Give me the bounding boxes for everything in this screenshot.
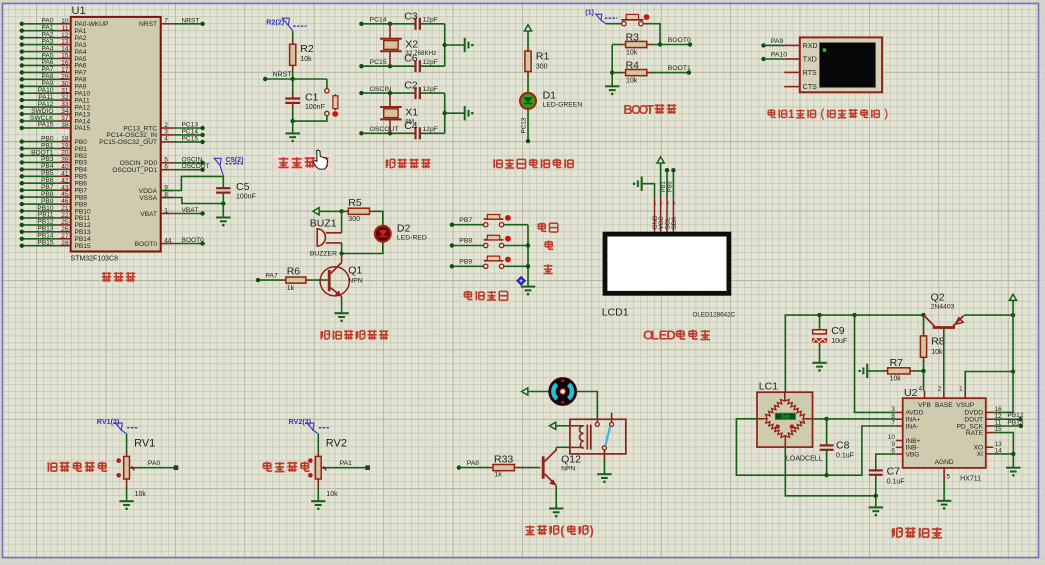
power arrow weighing: [1009, 294, 1016, 316]
svg-text:PB6: PB6: [41, 177, 54, 184]
svg-text:PB0: PB0: [668, 181, 674, 192]
svg-text:1: 1: [788, 108, 795, 121]
svg-text:22: 22: [61, 212, 69, 219]
crystal X2: [380, 24, 436, 66]
svg-text:D: D: [666, 328, 676, 343]
svg-text:PA15: PA15: [38, 122, 54, 129]
oled LCD1 body: [602, 234, 736, 318]
resistor R1: [525, 47, 550, 76]
svg-text:0.1uF: 0.1uF: [836, 452, 854, 459]
svg-text:13: 13: [61, 39, 69, 46]
svg-text:PB13: PB13: [1007, 419, 1023, 426]
node C8 bottom: [824, 473, 828, 477]
chip U1 pin PB6 (42): [20, 177, 88, 188]
chip U1 pin PA6 (16): [20, 59, 87, 70]
svg-text:3: 3: [667, 201, 670, 206]
svg-text:R4: R4: [626, 60, 640, 72]
svg-text:PB12: PB12: [1007, 412, 1023, 419]
wire D1 to PC13: [520, 109, 530, 143]
svg-text:C9: C9: [831, 325, 845, 337]
wire RATE to ground: [993, 433, 1013, 468]
svg-text:OLED128642C: OLED128642C: [693, 312, 736, 319]
wire R5 to D2: [373, 211, 383, 226]
svg-text:10k: 10k: [300, 56, 312, 63]
svg-text:4: 4: [673, 201, 676, 206]
op chip U1 body: [71, 5, 161, 262]
chip U2 pin PD_SCK (11): [957, 420, 1002, 431]
svg-text:X2: X2: [405, 39, 418, 51]
chip U2 pin AVDD (3): [891, 406, 923, 417]
wire OSCIN: [359, 86, 415, 95]
wire relay to ground: [603, 460, 605, 475]
label 复位电路 with cursor: [274, 150, 333, 171]
chip U2 HX711 body: [903, 387, 986, 483]
svg-text:300: 300: [348, 216, 360, 223]
node Q1 collector: [339, 251, 343, 255]
chip U1 pin VDDA (9): [139, 184, 174, 195]
wire right bus X1: [444, 93, 446, 133]
svg-text:PB1: PB1: [41, 142, 54, 149]
wire VSSA to C5: [161, 198, 224, 204]
ground C9: [812, 363, 826, 367]
LED D1 green: [520, 90, 582, 109]
svg-text:D2: D2: [397, 223, 411, 235]
chip U2 pin INB- (9): [891, 441, 918, 452]
svg-text:38: 38: [61, 122, 69, 129]
chip U1 pin VBAT (1): [140, 207, 205, 218]
net flag RV2(2): [289, 417, 331, 434]
svg-text:PB7: PB7: [459, 217, 472, 224]
svg-text:PC13: PC13: [520, 117, 527, 133]
oled pin GND: [652, 197, 659, 232]
svg-text:PB15: PB15: [75, 243, 91, 250]
svg-text:12pF: 12pF: [422, 17, 438, 24]
svg-text:U1: U1: [72, 5, 86, 17]
svg-text:44: 44: [164, 237, 172, 244]
svg-text:7: 7: [164, 18, 168, 25]
svg-text:10k: 10k: [326, 491, 338, 498]
chip U2 pin BASE (2): [935, 386, 953, 409]
resistor R5: [342, 197, 374, 223]
chip U1 pin PB15 (28): [20, 240, 91, 251]
svg-text:VFB: VFB: [918, 402, 931, 409]
svg-text:PB1: PB1: [75, 146, 88, 153]
svg-text:PB8: PB8: [459, 238, 472, 245]
chip U1 pin PA0-WKUP (10): [20, 18, 109, 29]
svg-text:SWDIO: SWDIO: [31, 108, 53, 115]
svg-text:PB11: PB11: [38, 212, 54, 219]
wire Q12 emitter: [555, 486, 557, 509]
resistor R3: [612, 32, 692, 57]
oled pin SCL: [664, 197, 671, 232]
svg-text:LED-RED: LED-RED: [397, 235, 427, 242]
svg-text:NRST: NRST: [139, 21, 157, 28]
svg-text:19: 19: [61, 143, 69, 150]
svg-text:OSCIN: OSCIN: [370, 86, 392, 93]
chip U1 pin PA3 (13): [20, 38, 87, 49]
wire LC1 right INA+: [813, 418, 896, 420]
wire buzzer bottom: [341, 243, 343, 254]
chip U1 pin PA1 (11): [20, 25, 87, 36]
push button BOOT: [606, 14, 660, 44]
wire PD_SCK PB13: [993, 419, 1024, 428]
ground keys: [521, 287, 535, 291]
svg-text:PA8: PA8: [75, 77, 87, 84]
label 减: [544, 264, 553, 273]
svg-text:45: 45: [61, 191, 69, 198]
chip U1 pin PB9 (46): [20, 198, 88, 209]
resistor R33: [457, 453, 541, 478]
svg-text:0.1uF: 0.1uF: [887, 479, 905, 486]
chip U1 pin PB8 (45): [20, 191, 88, 202]
svg-text:2N4403: 2N4403: [931, 304, 955, 311]
wire LC1 bottom: [785, 447, 876, 496]
net flag (1): [585, 8, 617, 24]
chip U1 pin PA12 (33): [20, 101, 91, 112]
resistor R2: [290, 31, 314, 79]
node rail Q2 collector: [921, 313, 925, 317]
svg-text:PA6: PA6: [42, 59, 54, 66]
chip U2 pin INA+ (8): [891, 413, 920, 424]
svg-text:300: 300: [536, 64, 548, 71]
svg-text:10k: 10k: [931, 349, 943, 356]
svg-text:R6: R6: [287, 266, 301, 278]
svg-text:PA8: PA8: [42, 73, 54, 80]
power arrow relay coil: [550, 422, 570, 429]
svg-text:CTS: CTS: [803, 84, 817, 91]
wire D2 to node: [342, 242, 383, 254]
svg-text:32.768KHz: 32.768KHz: [405, 50, 436, 57]
chip U2 pin INB+ (10): [888, 434, 921, 445]
chip U1 pin PB14 (27): [20, 233, 91, 244]
wire LC1 left INA-: [736, 419, 895, 475]
svg-text:NRST: NRST: [273, 72, 293, 79]
svg-text:LED-GREEN: LED-GREEN: [543, 102, 583, 109]
wire PA10 to TXD: [761, 52, 800, 62]
wire XI: [993, 453, 1013, 455]
svg-text:PC14-OSC32_IN: PC14-OSC32_IN: [106, 132, 157, 139]
ground side X2: [465, 38, 469, 52]
svg-text:R2: R2: [300, 43, 314, 55]
chip U1 pin NRST (7): [139, 17, 205, 28]
chip U1 pin VSSA (8): [139, 191, 173, 202]
svg-text:BOOT0: BOOT0: [182, 237, 205, 244]
chip U1 pin PB3 (39): [20, 156, 88, 167]
wire RV2 to ground: [318, 479, 338, 501]
capacitor C3: [404, 10, 445, 30]
crystal X1: [380, 93, 418, 133]
svg-text:STM32F103C8: STM32F103C8: [71, 256, 119, 263]
wire fan to relay: [576, 392, 597, 423]
chip U1 pin PB11 (22): [20, 212, 91, 223]
svg-text:6: 6: [164, 164, 168, 171]
chip U1 pin OSCIN_PD0 (5): [120, 156, 205, 167]
net flag R2(2): [266, 18, 306, 31]
wire VDDA to C5: [161, 176, 224, 190]
svg-text:PA13: PA13: [75, 111, 91, 118]
wire Q1 emitter to ground: [341, 297, 343, 314]
label 设置: [538, 223, 546, 232]
svg-text:C7: C7: [887, 466, 901, 478]
chip U1 pin PA8 (29): [20, 73, 87, 84]
svg-text:R3: R3: [626, 32, 640, 44]
svg-text:4: 4: [164, 136, 168, 143]
chip U1 pin PB1 (19): [20, 142, 88, 153]
svg-text:Q2: Q2: [931, 292, 945, 304]
svg-text:PB6: PB6: [75, 181, 88, 188]
wire OSCOUT: [359, 126, 415, 135]
svg-text:HX711: HX711: [960, 476, 981, 483]
chip U2 pin VFB (4): [918, 386, 931, 409]
oled pin SDA: [671, 197, 678, 232]
wire R1 to D1: [527, 75, 529, 93]
svg-text:TXD: TXD: [803, 57, 817, 64]
wire VSUP branch: [993, 315, 1013, 412]
svg-text:Q1: Q1: [348, 265, 362, 277]
chip U1 pin PA10 (31): [20, 87, 91, 98]
chip U2 pin XO (13): [973, 441, 1002, 452]
label 串口1窗口（模拟手机端）: [768, 109, 776, 117]
ground side R7: [858, 364, 884, 378]
ground Q1: [334, 313, 348, 317]
svg-text:BUZ1: BUZ1: [310, 218, 337, 230]
transistor Q2: [924, 292, 964, 329]
svg-text:4: 4: [918, 386, 922, 393]
svg-text:PC14: PC14: [370, 17, 387, 24]
wire keys bus: [527, 225, 529, 287]
ground side X1: [465, 106, 469, 120]
push button PB9: [450, 256, 528, 268]
chip U2 pin VBG (6): [891, 448, 919, 459]
resistor R4: [610, 45, 691, 86]
net flag C5(2): [214, 155, 244, 176]
svg-text:34: 34: [61, 108, 69, 115]
svg-text:12pF: 12pF: [422, 59, 438, 66]
push button PB7: [450, 215, 528, 227]
svg-text:PA1: PA1: [340, 460, 353, 467]
label 加: [545, 241, 553, 250]
svg-text:1: 1: [654, 201, 657, 206]
capacitor C4: [404, 120, 445, 140]
svg-text:PA10: PA10: [771, 52, 787, 59]
chip U2 pin RATE (15): [966, 426, 1002, 437]
chip U1 pin PC15-OSC32_OUT (4): [99, 135, 205, 146]
svg-text:R2(2): R2(2): [266, 18, 285, 27]
wire top rail weighing: [785, 315, 923, 392]
svg-text:29: 29: [61, 73, 69, 80]
ground RV2: [311, 501, 325, 505]
interactive marker diamond: [517, 277, 525, 285]
node C5 bottom junction: [221, 201, 225, 205]
svg-text:PA3: PA3: [75, 42, 87, 49]
label main chip 主芯片: [102, 272, 111, 282]
chip U1 pin PB5 (41): [20, 170, 88, 181]
svg-text:NPN: NPN: [348, 278, 362, 285]
wire RV2 wiper PA1: [326, 460, 370, 470]
resistor R8: [920, 315, 944, 391]
wire RV1 wiper PA0: [134, 460, 178, 470]
svg-text:PB8: PB8: [41, 191, 54, 198]
capacitor C6: [404, 53, 445, 72]
ground Q12: [549, 509, 563, 513]
relay RL1: [570, 413, 626, 461]
svg-text:C1: C1: [305, 91, 319, 103]
svg-text:3: 3: [164, 129, 168, 136]
chip U2 pin AGND (5): [935, 459, 954, 481]
chip U1 pin PB10 (21): [20, 205, 91, 216]
svg-text:PB1: PB1: [661, 181, 667, 192]
chip U1 pin PB0 (18): [20, 135, 88, 146]
transistor Q12: [542, 447, 581, 485]
svg-text:100nF: 100nF: [236, 194, 256, 201]
label 可燃气调节: [47, 462, 56, 472]
svg-text:PA15: PA15: [75, 125, 91, 132]
svg-text:C3: C3: [404, 10, 418, 22]
capacitor C1: [285, 79, 325, 121]
power arrow fan: [522, 388, 549, 395]
node C1 bottom: [291, 119, 295, 123]
node NRST: [263, 72, 327, 82]
svg-text:11: 11: [62, 25, 69, 32]
label 程序运行指示灯: [493, 159, 502, 168]
wire SDA PB0: [668, 168, 676, 197]
svg-text:100nF: 100nF: [305, 104, 325, 111]
push button reset: [293, 79, 338, 121]
svg-text:PB15: PB15: [37, 240, 53, 247]
chip U2 pin INA- (7): [891, 420, 918, 431]
node AVDD tap: [852, 313, 856, 317]
svg-text:X1: X1: [405, 107, 418, 119]
wire buzzer top: [341, 211, 343, 233]
push button PB8: [450, 235, 528, 247]
serial window VT1 body: [800, 37, 882, 92]
svg-text:R1: R1: [536, 51, 550, 63]
chip U2 pin VSUP (1): [956, 386, 975, 409]
svg-text:PC15-OSC32_OUT: PC15-OSC32_OUT: [99, 139, 157, 146]
wire DOUT PB12: [993, 412, 1024, 421]
loadcell bridge: [757, 392, 813, 447]
potentiometer RV1: [116, 434, 155, 479]
wire SCL PB1: [661, 168, 669, 197]
chip U1 pin PA14 (37): [20, 115, 91, 126]
ground reset: [286, 133, 300, 137]
svg-text:NRST: NRST: [182, 17, 200, 24]
ground C5: [216, 218, 230, 222]
chip U1 pin PA9 (30): [20, 80, 87, 91]
svg-text:BASE: BASE: [935, 402, 953, 409]
chip U1 pin PB4 (40): [20, 163, 88, 174]
svg-text:28: 28: [61, 240, 69, 247]
chip U2 pin XI (14): [977, 448, 1002, 459]
ground side OLED: [633, 177, 655, 198]
svg-text:1k: 1k: [494, 472, 502, 479]
svg-text:C5: C5: [236, 181, 250, 193]
svg-text:RATE: RATE: [966, 430, 984, 437]
svg-text:PB8: PB8: [75, 194, 88, 201]
svg-text:R33: R33: [494, 453, 513, 465]
chip U1 pin PA4 (14): [20, 45, 87, 56]
capacitor C2: [404, 80, 445, 100]
svg-text:1: 1: [164, 207, 168, 214]
resistor R7: [883, 357, 924, 383]
svg-text:RXD: RXD: [803, 43, 818, 50]
svg-text:PB3: PB3: [41, 156, 54, 163]
svg-text:0.0: 0.0: [782, 415, 790, 421]
svg-text:26: 26: [61, 226, 69, 233]
svg-text:R7: R7: [890, 357, 904, 369]
transistor Q1: [310, 254, 363, 297]
svg-text:(: (: [560, 523, 565, 538]
pin CTS stub: [784, 86, 800, 88]
label 称重模块: [892, 528, 902, 538]
svg-text:PA3: PA3: [42, 38, 54, 45]
svg-text:R8: R8: [931, 336, 945, 348]
wire Q12 collector: [556, 446, 570, 448]
svg-text:10k: 10k: [626, 78, 638, 85]
svg-text:PA11: PA11: [38, 94, 53, 101]
svg-text:39: 39: [61, 157, 69, 164]
wire C5 to ground: [222, 193, 224, 218]
svg-text:LCD1: LCD1: [602, 307, 629, 319]
wire PA9 to RXD: [761, 38, 800, 48]
power arrow R1: [524, 25, 531, 48]
svg-text:C5(2): C5(2): [226, 155, 245, 164]
wire AVDD vertical: [855, 315, 896, 412]
wire PC14: [359, 17, 415, 26]
capacitor C8: [820, 419, 854, 475]
power arrow OLED VCC: [657, 157, 664, 197]
label 声光报警电路: [320, 331, 329, 340]
svg-text:PA6: PA6: [75, 63, 87, 70]
ground C7: [869, 507, 883, 511]
svg-text:PB11: PB11: [75, 215, 91, 222]
chip U1 pin PA15 (38): [20, 122, 91, 133]
svg-text:PB3: PB3: [75, 160, 88, 167]
label 独立按键: [464, 291, 472, 300]
node R5 left: [339, 209, 343, 213]
svg-text:5: 5: [947, 474, 951, 481]
chip U1 pin PA7 (17): [20, 66, 87, 77]
capacitor C9: [812, 315, 847, 363]
wire PC15: [359, 59, 415, 68]
svg-text:VSUP: VSUP: [956, 402, 975, 409]
svg-text:32: 32: [61, 94, 69, 101]
svg-text:RTS: RTS: [803, 70, 817, 77]
wire RV1 to ground: [127, 479, 147, 501]
ground RV1: [119, 501, 133, 505]
chip U1 pin PB2 (20): [20, 149, 88, 160]
svg-text:BOOT0: BOOT0: [668, 37, 691, 44]
loadcell LC1 body: [757, 381, 823, 463]
chip U1 pin BOOT0 (44): [135, 237, 205, 248]
wire AGND ground: [943, 481, 945, 501]
wire Q2 emitter rail: [964, 314, 1013, 316]
svg-text:LC1: LC1: [759, 381, 778, 393]
svg-text:VSSA: VSSA: [139, 195, 157, 202]
label 继电器(通风): [525, 525, 534, 534]
svg-text:VBAT: VBAT: [182, 207, 199, 214]
svg-text:U2: U2: [904, 387, 918, 399]
svg-text:C8: C8: [836, 440, 850, 452]
svg-text:BOOT1: BOOT1: [668, 65, 691, 72]
chip U1 pin PC14-OSC32_IN (3): [106, 128, 204, 139]
chip U1 pin PB13 (26): [20, 226, 91, 237]
svg-text:OSCOUT: OSCOUT: [182, 163, 210, 170]
svg-text:PC15: PC15: [370, 59, 387, 66]
ground BOOT: [605, 86, 619, 90]
svg-text:10uF: 10uF: [831, 338, 847, 345]
potentiometer RV2: [308, 434, 347, 479]
